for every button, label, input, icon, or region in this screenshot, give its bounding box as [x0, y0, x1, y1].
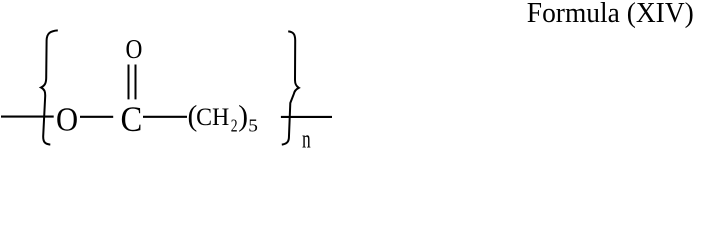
svg-text:): )	[238, 100, 248, 132]
svg-text:CH: CH	[196, 104, 229, 131]
svg-text:n: n	[302, 124, 311, 149]
svg-text:O: O	[126, 33, 143, 64]
svg-text:Formula (XIV): Formula (XIV)	[527, 0, 694, 29]
svg-text:2: 2	[231, 117, 238, 136]
svg-text:5: 5	[248, 116, 258, 135]
svg-text:C: C	[121, 101, 143, 140]
svg-text:O: O	[56, 100, 78, 138]
